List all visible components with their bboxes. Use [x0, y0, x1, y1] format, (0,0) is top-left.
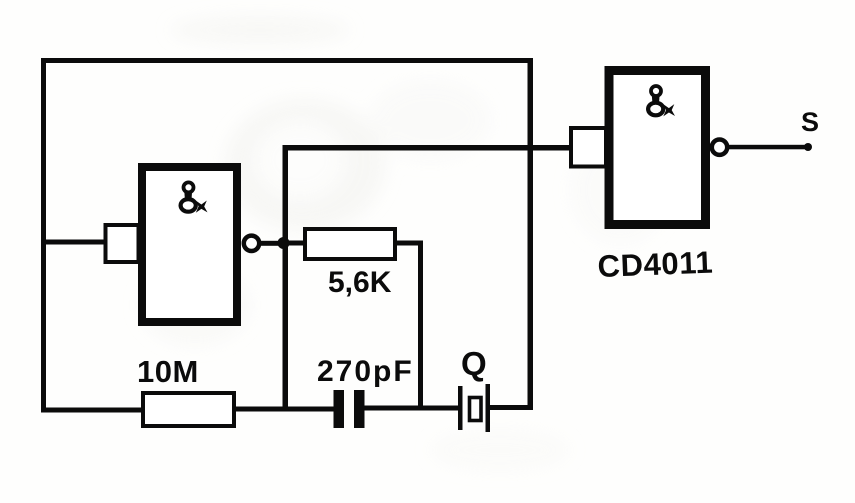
gate U1a input box: [106, 225, 139, 262]
crystal Q left electrode bar: [458, 386, 463, 430]
gate U1b body: [609, 71, 706, 225]
wire: bottom rail segment between 10M and capacitor: [234, 407, 335, 412]
wire: bottom rail segment between crystal and right corner: [489, 405, 533, 410]
resistor R2 10M body: [143, 393, 234, 426]
svg-text:10M: 10M: [137, 354, 199, 389]
gate U1a output bubble: [244, 236, 259, 251]
svg-text:270pF: 270pF: [317, 355, 414, 388]
svg-text:S: S: [801, 107, 819, 137]
svg-text:5,6K: 5,6K: [328, 266, 392, 299]
crystal Q right electrode bar: [486, 384, 491, 432]
svg-text:CD4011: CD4011: [597, 245, 714, 284]
wire: outer loop left vertical: [41, 58, 46, 412]
gate U1a body: [142, 167, 237, 322]
wire: bottom rail segment left of 10M: [41, 408, 143, 413]
terminal S dot: [804, 143, 812, 151]
resistor R1 body: [305, 229, 395, 259]
wire: gate U1a input stub from left rail: [44, 240, 106, 245]
wire: output to terminal S: [728, 145, 808, 150]
node junction dot: [278, 237, 290, 249]
wire: outer loop top rail: [41, 58, 533, 63]
gate U1b input box: [571, 128, 606, 167]
capacitor C1 right plate: [354, 390, 365, 428]
wire: outer loop right vertical: [528, 58, 534, 408]
crystal Q body: [470, 398, 482, 421]
wire: bottom rail segment between capacitor and crystal: [363, 406, 459, 411]
wire: R1 right vertical down to bottom rail: [418, 241, 423, 409]
wire: node vertical (feedback up / down to bottom rail): [283, 145, 289, 410]
capacitor C1 left plate: [334, 390, 345, 428]
gate U1b label &: [648, 86, 675, 116]
gate U1a label &: [181, 182, 208, 212]
wire: node to resistor 5,6K: [288, 241, 308, 246]
wire: bubble to node: [260, 241, 285, 246]
svg-text:Q: Q: [461, 345, 487, 382]
gate U1b output bubble: [712, 140, 727, 155]
wire: feedback horizontal to gate U1b input: [283, 145, 571, 151]
wire: resistor R1 right to corner: [393, 241, 423, 246]
